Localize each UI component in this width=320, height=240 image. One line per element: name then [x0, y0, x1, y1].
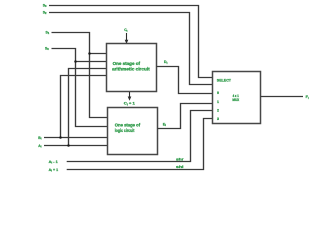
wire S1 (select to arithmetic and logic circuits)	[52, 33, 109, 118]
wire S0 branch to arithmetic circuit	[76, 61, 108, 63]
wire S1 branch to arithmetic circuit	[90, 53, 108, 55]
svg-text:2: 2	[217, 108, 219, 112]
svg-text:shl: shl	[176, 165, 184, 169]
wire Ai branch up to arithmetic circuit	[69, 69, 108, 146]
svg-text:1: 1	[217, 100, 219, 104]
wire S2 (second select line to MUX select)	[49, 13, 213, 85]
wire S0 (select to arithmetic and logic circuits)	[52, 49, 109, 127]
wire Ei (logic output to MUX input 1)	[158, 104, 213, 129]
wire Fi output	[261, 96, 304, 98]
svg-text:arithmetic circuit: arithmetic circuit	[112, 66, 150, 71]
wire shr Ai-1 (shift right input to MUX input 2)	[67, 111, 213, 162]
wire S3 (top select line to MUX select)	[49, 6, 213, 78]
wire Ci+1 output arrow from arithmetic circuit	[129, 92, 131, 97]
block U1 one stage of arithmetic circuit	[107, 44, 157, 92]
svg-text:MUX: MUX	[232, 98, 240, 102]
svg-text:0: 0	[217, 91, 219, 95]
wire Di (arithmetic output to MUX input 0)	[157, 67, 213, 94]
node Bi junction	[59, 136, 62, 139]
svg-text:logic circuit: logic circuit	[115, 128, 135, 133]
svg-text:3: 3	[217, 117, 219, 121]
wire Bi (data input to both circuits)	[44, 137, 108, 139]
wire Ai (data input to both circuits)	[44, 145, 108, 147]
node S1 junction	[88, 52, 91, 55]
wire Bi branch up to arithmetic circuit	[61, 76, 108, 138]
wire shl Ai+1 (shift left input to MUX input 3)	[67, 119, 213, 170]
svg-text:One stage of: One stage of	[115, 122, 141, 127]
wire Ci input arrow into arithmetic circuit	[126, 33, 128, 41]
node S0 junction	[74, 60, 77, 63]
svg-text:shr: shr	[176, 157, 184, 161]
node Ai junction	[67, 144, 70, 147]
svg-text:One stage of: One stage of	[113, 61, 141, 66]
block U2 one stage of logic circuit	[108, 108, 158, 155]
block U3 4x1 MUX	[213, 72, 261, 124]
svg-text:SELECT: SELECT	[217, 79, 232, 83]
